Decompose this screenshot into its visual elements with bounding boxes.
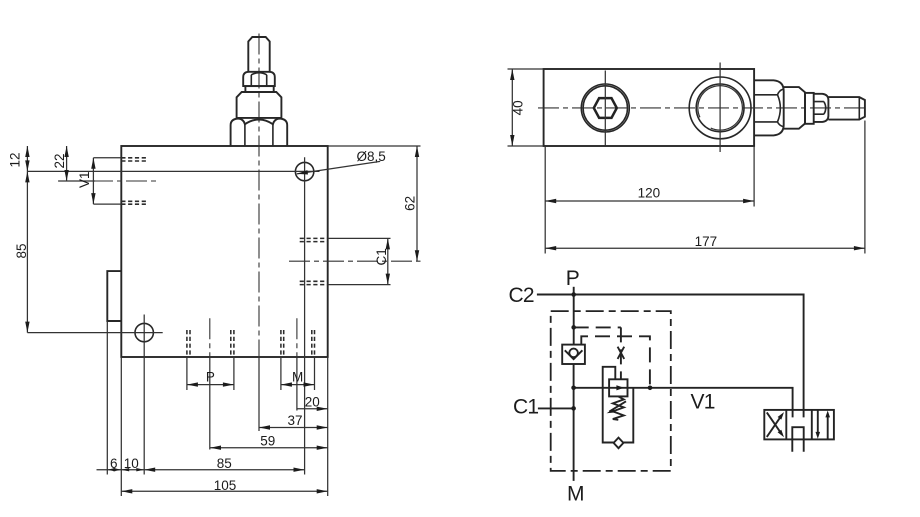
junction dot P-C2 bbox=[571, 292, 576, 297]
junction dot P-pilot bbox=[571, 325, 576, 330]
check valve ball bbox=[569, 349, 578, 358]
relief bypass right branch bbox=[623, 388, 633, 443]
dimension C1 bbox=[387, 238, 389, 284]
directional valve box bbox=[764, 410, 834, 440]
junction dot C1 bbox=[571, 406, 576, 411]
directional valve dividers bbox=[786, 410, 812, 440]
dimension 177 bbox=[864, 121, 866, 254]
bypass check valve diamond bbox=[614, 438, 624, 449]
plugged port X bbox=[618, 347, 625, 359]
svg-text:Ø8,5: Ø8,5 bbox=[357, 149, 386, 164]
V1 port centerline bbox=[58, 180, 160, 182]
middle cell tank bridge bbox=[792, 427, 803, 452]
pilot line from check valve (dashed) bbox=[581, 336, 650, 388]
dimension 20 bbox=[297, 408, 328, 410]
valve boundary dashed box bbox=[551, 311, 671, 471]
screw hex nut bbox=[231, 119, 288, 147]
M dimension extension lines bbox=[281, 357, 315, 390]
check valve U1 box bbox=[562, 345, 585, 364]
svg-text:V1: V1 bbox=[77, 171, 92, 188]
V1 port hidden lines bbox=[121, 158, 147, 204]
svg-text:22: 22 bbox=[52, 153, 67, 168]
hex socket plug inner circle bbox=[583, 86, 627, 130]
svg-text:P: P bbox=[566, 267, 579, 290]
svg-text:85: 85 bbox=[14, 243, 29, 258]
spring cavity thread arc bbox=[698, 86, 743, 131]
dimension 85 left bbox=[26, 171, 28, 332]
svg-text:177: 177 bbox=[695, 234, 718, 249]
relief adjustment arrow bbox=[609, 401, 626, 411]
svg-text:62: 62 bbox=[403, 196, 418, 211]
relief spring bbox=[613, 396, 624, 419]
top mounting hole bbox=[295, 162, 313, 180]
screw centerline extension below body bbox=[258, 357, 260, 431]
relief valve flow arrow bbox=[616, 385, 624, 390]
right cell up arrow bbox=[827, 414, 829, 439]
side hex nut bbox=[754, 80, 784, 135]
svg-text:C2: C2 bbox=[509, 284, 534, 307]
svg-text:59: 59 bbox=[260, 434, 275, 449]
svg-text:M: M bbox=[567, 483, 584, 506]
wire P line bbox=[573, 287, 575, 345]
dimension 105 bbox=[121, 490, 327, 492]
svg-text:120: 120 bbox=[638, 186, 661, 201]
horizontal centerline bbox=[538, 107, 866, 109]
side flange bbox=[784, 87, 805, 129]
wire C1 line bbox=[538, 407, 574, 409]
C1 port centerline bbox=[289, 260, 421, 262]
plug vertical centerline bbox=[604, 71, 606, 146]
svg-text:37: 37 bbox=[288, 413, 303, 428]
junction dot pilot-V1 bbox=[648, 386, 653, 391]
P dimension extension lines bbox=[187, 357, 234, 390]
right cell down arrow bbox=[817, 411, 819, 436]
wire C2 line bbox=[537, 295, 804, 418]
cavity vertical centerline bbox=[719, 63, 721, 153]
svg-text:40: 40 bbox=[510, 100, 525, 115]
svg-text:C1: C1 bbox=[513, 396, 538, 419]
relief valve box bbox=[609, 379, 627, 396]
check valve seat bbox=[565, 350, 583, 359]
left hole horizontal centerline bbox=[27, 332, 162, 334]
dimension 12 bbox=[26, 146, 28, 171]
valve body outline bbox=[121, 146, 327, 357]
svg-text:12: 12 bbox=[8, 152, 23, 167]
screw cylinder section bbox=[245, 86, 273, 92]
right edge extension line bbox=[327, 357, 329, 496]
svg-text:V1: V1 bbox=[691, 390, 715, 413]
C1 port hidden lines bbox=[300, 238, 328, 284]
spring cavity outer circle bbox=[689, 77, 751, 139]
left cell crossed arrows bbox=[767, 415, 782, 437]
boss edge extension line bbox=[106, 321, 108, 475]
dimension 22 bbox=[66, 146, 68, 181]
dimension 59 bbox=[210, 447, 328, 449]
side lock nut bbox=[814, 94, 829, 122]
relief pilot loop bbox=[603, 367, 616, 443]
svg-text:C1: C1 bbox=[374, 248, 389, 265]
screw stem bbox=[248, 37, 269, 72]
top hole vertical centerline bbox=[304, 157, 306, 474]
left hole vertical centerline bbox=[143, 315, 145, 475]
left edge extension line bbox=[120, 357, 122, 496]
svg-text:M: M bbox=[292, 370, 303, 385]
dimension 6 and 10 bbox=[97, 469, 145, 471]
wire main V1 line bbox=[574, 388, 793, 418]
dimension 120 bbox=[545, 146, 754, 254]
svg-text:P: P bbox=[206, 370, 215, 385]
dimension M bbox=[281, 384, 315, 386]
wire M line bbox=[573, 364, 575, 481]
junction dot main line bbox=[571, 386, 576, 391]
svg-text:10: 10 bbox=[124, 456, 139, 471]
screw flange bbox=[237, 92, 282, 118]
dimension 62 bbox=[328, 145, 421, 147]
pilot line to relief (dashed) bbox=[574, 326, 621, 328]
dimension V1 bbox=[93, 158, 121, 204]
P port hidden lines bbox=[187, 330, 234, 357]
dimension 37 bbox=[259, 427, 328, 429]
side step ring bbox=[805, 93, 814, 124]
dimension 40 bbox=[508, 69, 544, 146]
top view body outline bbox=[544, 69, 755, 146]
hex socket bbox=[594, 98, 617, 118]
leader Ø8,5 bbox=[297, 161, 380, 174]
C1 port extension lines bbox=[328, 238, 391, 284]
spring cavity inner circle bbox=[696, 84, 744, 132]
top hole horizontal centerline bbox=[27, 170, 319, 172]
svg-text:105: 105 bbox=[214, 478, 237, 493]
svg-text:85: 85 bbox=[217, 456, 232, 471]
P port centerline bbox=[209, 318, 211, 357]
hex socket plug outer circle bbox=[581, 84, 629, 132]
svg-text:20: 20 bbox=[305, 395, 320, 410]
screw lock nut bbox=[243, 72, 275, 86]
side shaft bbox=[828, 97, 865, 120]
left port boss bbox=[107, 271, 121, 321]
svg-text:6: 6 bbox=[110, 456, 118, 471]
dimension P bbox=[187, 384, 234, 386]
lower-left mounting hole bbox=[135, 323, 153, 341]
dimension 85 bottom bbox=[144, 469, 304, 471]
adjustment screw centerline bbox=[258, 34, 260, 358]
M port hidden lines bbox=[281, 330, 315, 357]
M port centerline bbox=[296, 318, 298, 357]
